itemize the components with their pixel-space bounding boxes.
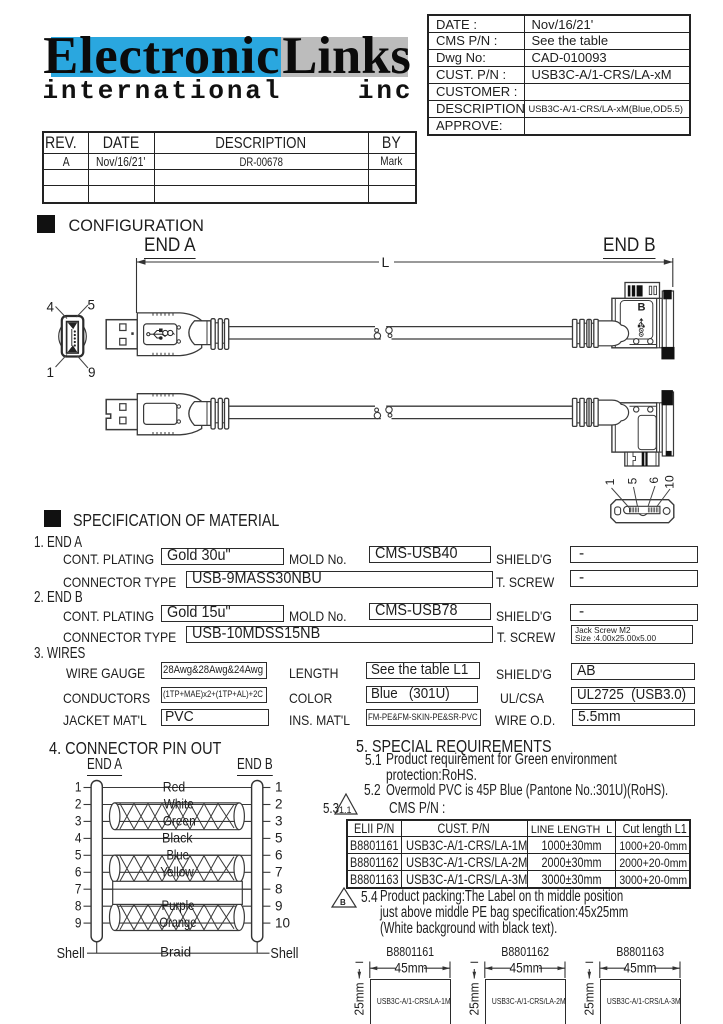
svg-text:L: L [382,254,390,270]
svg-text:1.1: 1.1 [339,805,352,815]
svg-text:2: 2 [75,796,82,812]
svg-text:1: 1 [47,365,55,380]
svg-text:10: 10 [275,915,290,930]
svg-text:1: 1 [275,780,283,795]
svg-text:5: 5 [275,831,283,846]
svg-text:Shell: Shell [57,946,85,962]
svg-text:B: B [340,898,346,907]
svg-text:1: 1 [603,478,617,485]
svg-text:Blue: Blue [166,846,189,862]
svg-text:9: 9 [75,915,82,931]
svg-text:45mm: 45mm [395,961,428,976]
svg-text:10: 10 [662,475,676,489]
svg-text:5: 5 [625,477,639,484]
svg-text:4: 4 [75,830,82,846]
svg-text:45mm: 45mm [510,961,543,976]
svg-text:1: 1 [75,779,82,795]
svg-text:25mm: 25mm [352,983,366,1016]
svg-text:3: 3 [75,813,82,829]
svg-text:4: 4 [47,300,55,315]
svg-text:6: 6 [275,848,283,863]
svg-text:5: 5 [88,298,96,313]
svg-text:7: 7 [75,881,82,897]
svg-text:Black: Black [162,829,193,845]
svg-text:Green: Green [163,812,196,828]
svg-text:Red: Red [163,779,186,795]
svg-text:3: 3 [275,814,283,829]
svg-text:6: 6 [75,864,82,880]
svg-text:25mm: 25mm [582,983,596,1016]
svg-text:25mm: 25mm [467,983,481,1016]
svg-text:White: White [164,796,194,812]
svg-text:2: 2 [275,797,283,812]
svg-text:8: 8 [275,881,283,896]
svg-text:9: 9 [275,898,283,913]
svg-text:Shell: Shell [270,946,298,962]
svg-text:Yellow: Yellow [160,863,194,879]
svg-text:6: 6 [647,477,661,484]
svg-text:Orange: Orange [159,914,196,930]
svg-text:7: 7 [275,865,283,880]
svg-text:45mm: 45mm [624,961,657,976]
svg-text:8: 8 [75,898,82,914]
svg-text:Purple: Purple [162,897,195,913]
svg-text:9: 9 [88,365,96,380]
svg-text:B: B [638,302,646,314]
svg-text:5: 5 [75,847,82,863]
svg-text:Braid: Braid [160,944,191,960]
